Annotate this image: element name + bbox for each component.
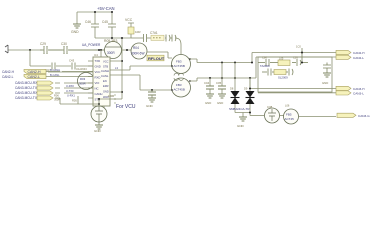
svg-text:L06: L06 bbox=[285, 104, 290, 108]
svg-text:CAN3-L: CAN3-L bbox=[353, 91, 364, 95]
svg-text:FB3: FB3 bbox=[176, 60, 182, 64]
svg-text:VCC: VCC bbox=[95, 70, 101, 74]
svg-text:VIO: VIO bbox=[95, 81, 101, 85]
svg-text:RXD: RXD bbox=[95, 76, 101, 80]
svg-text:CAN3-G: CAN3-G bbox=[358, 114, 370, 118]
svg-text:300R-6W: 300R-6W bbox=[131, 52, 144, 56]
svg-text:10R: 10R bbox=[135, 30, 141, 34]
svg-text:TA2009: TA2009 bbox=[260, 64, 270, 68]
svg-text:C7#1: C7#1 bbox=[150, 31, 158, 35]
svg-text:B-CANH: B-CANH bbox=[50, 68, 60, 72]
svg-text:R05: R05 bbox=[72, 99, 77, 103]
svg-text:GND: GND bbox=[205, 101, 211, 105]
svg-text:GND: GND bbox=[322, 81, 328, 85]
svg-text:GND: GND bbox=[217, 101, 223, 105]
svg-text:STB: STB bbox=[103, 65, 108, 69]
svg-text:C66: C66 bbox=[262, 56, 267, 60]
svg-text:GND: GND bbox=[71, 30, 79, 34]
svg-text:R05 3R3: R05 3R3 bbox=[104, 39, 117, 43]
svg-text:UA-R043: UA-R043 bbox=[76, 67, 87, 71]
svg-text:U-RX0: U-RX0 bbox=[66, 84, 74, 88]
svg-text:NC: NC bbox=[95, 87, 99, 91]
svg-text:R06: R06 bbox=[54, 94, 59, 98]
svg-text:GND: GND bbox=[146, 104, 154, 108]
svg-text:ACT45B: ACT45B bbox=[174, 88, 185, 92]
svg-text:UA_POWER: UA_POWER bbox=[82, 43, 101, 47]
svg-text:CAN2-H: CAN2-H bbox=[353, 51, 365, 55]
svg-text:U-TX0: U-TX0 bbox=[66, 89, 74, 93]
svg-text:SMBJ24CA-TR: SMBJ24CA-TR bbox=[229, 107, 250, 111]
svg-text:GND: GND bbox=[95, 65, 101, 69]
svg-text:C45: C45 bbox=[102, 20, 108, 24]
svg-text:CAN2-L: CAN2-L bbox=[28, 75, 41, 79]
svg-text:FB3: FB3 bbox=[176, 83, 182, 87]
svg-text:R04: R04 bbox=[133, 46, 139, 50]
svg-text:C05: C05 bbox=[293, 56, 298, 60]
svg-text:300R: 300R bbox=[107, 51, 115, 55]
svg-text:VCC: VCC bbox=[103, 60, 109, 64]
svg-text:U4: U4 bbox=[94, 53, 98, 57]
svg-text:C29: C29 bbox=[40, 42, 46, 46]
svg-text:CAN2-H: CAN2-H bbox=[2, 70, 15, 74]
svg-text:ACT45: ACT45 bbox=[285, 117, 295, 121]
svg-text:VCC: VCC bbox=[125, 18, 133, 22]
svg-text:CAN2-H: CAN2-H bbox=[28, 70, 42, 74]
svg-text:C05: C05 bbox=[216, 81, 222, 85]
svg-text:GND: GND bbox=[237, 124, 245, 128]
svg-text:L05: L05 bbox=[279, 57, 284, 61]
svg-text:CAN3-MCU-TX1: CAN3-MCU-TX1 bbox=[15, 96, 39, 100]
svg-text:D8: D8 bbox=[230, 87, 234, 91]
svg-text:CAN3-MCU-RX0: CAN3-MCU-RX0 bbox=[15, 81, 39, 85]
svg-text:SL2009: SL2009 bbox=[278, 76, 288, 80]
svg-text:GND: GND bbox=[103, 90, 109, 94]
svg-text:FB5: FB5 bbox=[286, 113, 292, 117]
svg-text:C46: C46 bbox=[85, 20, 91, 24]
svg-text:EN: EN bbox=[103, 79, 107, 83]
svg-text:CAN3-H: CAN3-H bbox=[353, 87, 365, 91]
svg-text:B-CANL: B-CANL bbox=[50, 73, 60, 77]
svg-text:C38: C38 bbox=[267, 105, 273, 109]
svg-text:1C0: 1C0 bbox=[296, 45, 301, 49]
svg-text:U-RX1: U-RX1 bbox=[67, 94, 75, 98]
svg-text:C43: C43 bbox=[69, 59, 75, 63]
svg-text:C04: C04 bbox=[204, 81, 210, 85]
svg-text:ACT45B: ACT45B bbox=[174, 64, 185, 68]
svg-text:CANH: CANH bbox=[95, 92, 103, 96]
svg-text:CANL: CANL bbox=[101, 74, 109, 78]
svg-text:GND: GND bbox=[94, 129, 102, 133]
svg-text:CAN2-L: CAN2-L bbox=[353, 56, 364, 60]
svg-text:RFLOUT: RFLOUT bbox=[148, 56, 165, 61]
svg-text:100R: 100R bbox=[108, 94, 114, 98]
svg-text:D9: D9 bbox=[244, 87, 248, 91]
svg-text:C30: C30 bbox=[61, 42, 67, 46]
svg-text:300R: 300R bbox=[54, 98, 60, 102]
svg-text:300R: 300R bbox=[79, 82, 86, 86]
svg-text:CANH: CANH bbox=[101, 69, 109, 73]
svg-text:ERR: ERR bbox=[103, 84, 109, 88]
svg-text:+5V-CAN: +5V-CAN bbox=[97, 6, 115, 11]
svg-text:CAN3-MCU-RX1: CAN3-MCU-RX1 bbox=[15, 91, 39, 95]
svg-text:For VCU: For VCU bbox=[116, 104, 136, 110]
svg-text:TXD: TXD bbox=[95, 59, 101, 63]
svg-text:CAN3-MCU-TX0: CAN3-MCU-TX0 bbox=[15, 86, 39, 90]
svg-text:CAN2-L: CAN2-L bbox=[2, 75, 14, 79]
svg-text:R03: R03 bbox=[80, 77, 86, 81]
